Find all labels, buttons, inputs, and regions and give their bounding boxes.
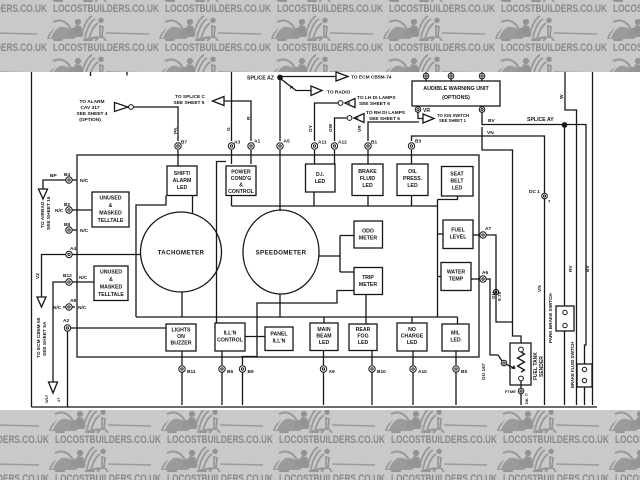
svg-text:CONTROL: CONTROL xyxy=(217,338,243,344)
svg-text:MIL: MIL xyxy=(451,331,461,337)
wire tachometer to bus bottom xyxy=(181,292,183,317)
svg-text:F: F xyxy=(348,101,351,106)
wire B4 to airbag arrow xyxy=(43,180,66,189)
wire trip meter down to rear fog led xyxy=(365,295,367,325)
svg-text:LED: LED xyxy=(450,338,461,344)
svg-text:(OPTION): (OPTION) xyxy=(79,117,101,123)
pin circle audible bottom left xyxy=(417,105,419,107)
svg-text:G: G xyxy=(226,127,232,131)
wire B10 down xyxy=(371,372,373,405)
wire rear fog led to B10 xyxy=(371,351,373,366)
panel illn box xyxy=(265,327,293,351)
wire splice C to node A1 xyxy=(224,101,251,141)
wire stub B8 xyxy=(72,229,77,231)
svg-text:SEE SHEET 6: SEE SHEET 6 xyxy=(359,101,390,107)
resistor fuel sender xyxy=(518,352,525,372)
wire G from sheet edge to node A3 xyxy=(231,72,233,141)
wire audible to ign arrow xyxy=(418,112,423,118)
svg-text:LED: LED xyxy=(362,183,373,189)
svg-text:TO RH DI LAMPS: TO RH DI LAMPS xyxy=(366,110,406,116)
svg-text:B9: B9 xyxy=(248,369,254,375)
svg-text:BP: BP xyxy=(50,173,57,179)
frame bottom border xyxy=(32,406,598,408)
pin circle RH DI lamps xyxy=(347,116,352,121)
dashboard enclosure box xyxy=(77,155,479,357)
svg-text:A4: A4 xyxy=(70,246,76,252)
power cond'g control box xyxy=(226,166,256,196)
svg-text:TO AIRBAG: TO AIRBAG xyxy=(40,201,46,228)
svg-text:GW: GW xyxy=(328,123,334,132)
wire splice AZ to radio arrow xyxy=(281,79,311,91)
svg-text:VN: VN xyxy=(487,130,494,136)
svg-text:COND'G: COND'G xyxy=(231,176,252,182)
wire speedometer to bus bottom xyxy=(279,294,281,317)
oil press led box xyxy=(397,164,428,196)
wire A9 down xyxy=(323,372,325,405)
unused masked telltale box 2 xyxy=(94,266,128,301)
connector A8 xyxy=(66,304,72,310)
svg-text:VR: VR xyxy=(357,125,363,132)
wire sender bottom to connector xyxy=(520,381,522,388)
connector on fuel wire xyxy=(493,289,498,294)
svg-text:FTME: FTME xyxy=(505,389,516,394)
wire node A3 to power box xyxy=(231,150,233,164)
svg-text:A10: A10 xyxy=(418,369,427,375)
sender terminal top xyxy=(519,347,524,352)
pin circle audible top 1 xyxy=(425,72,427,81)
tachometer dial xyxy=(141,212,222,292)
svg-text:OIL: OIL xyxy=(408,169,417,175)
node B7 xyxy=(175,143,181,149)
wire oil press led to bus top xyxy=(411,196,413,207)
svg-text:SPLICE AY: SPLICE AY xyxy=(527,117,554,123)
wire water temp to bus riser xyxy=(438,276,442,278)
connector A10 xyxy=(410,366,416,372)
brake fluid led box xyxy=(352,164,383,196)
svg-text:POWER: POWER xyxy=(231,170,251,176)
svg-text:B7: B7 xyxy=(181,140,187,146)
wire power box left to bus top xyxy=(231,196,233,207)
wire fuel level to bus riser xyxy=(438,233,444,235)
wire shift led to inner bus left riser xyxy=(136,196,166,318)
wiper contact circle xyxy=(501,360,507,366)
svg-text:B4: B4 xyxy=(64,172,70,178)
svg-text:MAIN: MAIN xyxy=(317,327,331,333)
svg-text:LED: LED xyxy=(358,340,369,346)
svg-text:UNUSED: UNUSED xyxy=(100,196,122,202)
svg-text:LED: LED xyxy=(407,340,418,346)
svg-text:TO RADIO: TO RADIO xyxy=(327,90,351,96)
svg-text:SPEEDOMETER: SPEEDOMETER xyxy=(256,250,307,257)
svg-text:SEE SHEET 16: SEE SHEET 16 xyxy=(46,196,52,230)
svg-text:17: 17 xyxy=(56,397,61,402)
node A11 xyxy=(311,143,317,149)
wire VN from node B3 to DC1 xyxy=(412,136,545,193)
svg-text:PK: PK xyxy=(173,127,179,134)
svg-text:&: & xyxy=(239,183,243,189)
unused masked telltale box 1 xyxy=(92,192,129,227)
svg-text:FOG: FOG xyxy=(357,334,368,340)
svg-text:TO SPLICE C: TO SPLICE C xyxy=(175,94,206,100)
connector B10 xyxy=(369,366,375,372)
shift/alarm led box xyxy=(167,166,197,196)
wire A6 to fuel sender wiper xyxy=(486,279,502,361)
svg-text:LEVEL: LEVEL xyxy=(450,235,468,241)
bus bottom rail H2 xyxy=(136,316,458,318)
svg-text:LED: LED xyxy=(315,179,326,185)
svg-text:R: R xyxy=(246,116,252,120)
svg-text:ODO: ODO xyxy=(362,229,374,235)
svg-text:AUDIBLE WARNING UNIT: AUDIBLE WARNING UNIT xyxy=(423,86,489,92)
wiper arrow xyxy=(507,365,516,369)
svg-text:SEAT: SEAT xyxy=(450,172,464,178)
svg-text:LED: LED xyxy=(407,183,418,189)
wire audible feed down to fuel gauge junction xyxy=(482,127,513,322)
fuel tank sender box xyxy=(510,343,531,385)
wire illn control to panel illn xyxy=(245,336,265,338)
svg-text:SENDER: SENDER xyxy=(539,356,545,377)
connector B4 xyxy=(66,177,72,183)
connector A4 xyxy=(66,251,72,257)
connector B2 xyxy=(66,207,72,213)
wire B5 down xyxy=(455,372,457,405)
svg-text:TO LH DI LAMPS: TO LH DI LAMPS xyxy=(357,95,396,101)
rear fog led box xyxy=(349,324,377,351)
brake fluid contact bottom xyxy=(582,378,586,382)
wire A2 to lights on buzzer xyxy=(71,327,166,329)
connector below sender xyxy=(518,388,524,394)
wire no charge led to A10 xyxy=(412,351,414,365)
audible warning unit U1 xyxy=(412,81,500,106)
arrow to LH DI lamps xyxy=(345,99,355,108)
svg-text:SEE SHEET 1: SEE SHEET 1 xyxy=(439,118,467,123)
watermark band top xyxy=(0,0,640,72)
svg-text:NO: NO xyxy=(408,327,416,333)
svg-text:A9: A9 xyxy=(329,369,335,375)
svg-text:REAR: REAR xyxy=(356,327,371,333)
svg-text:TO ALARM: TO ALARM xyxy=(79,99,104,105)
arrow to RH DI lamps xyxy=(354,114,364,123)
splice AZ dot xyxy=(278,75,282,79)
wire park brake down xyxy=(564,331,566,405)
wire RH DI to node A12 xyxy=(335,118,348,141)
wire lights on buzzer to B11 xyxy=(181,351,183,365)
wire B2 to telltale 1 xyxy=(72,209,92,211)
svg-text:BELT: BELT xyxy=(450,179,464,185)
speedometer dial xyxy=(243,210,319,294)
wire B11 down xyxy=(181,372,183,405)
wire illn control to B6 xyxy=(221,351,223,365)
svg-text:CHARGE: CHARGE xyxy=(401,334,424,340)
wire node B1 to brake fluid led xyxy=(367,150,369,164)
svg-text:B1: B1 xyxy=(371,140,377,146)
wire B12 left down xyxy=(53,282,66,382)
svg-text:B2: B2 xyxy=(64,202,70,208)
wire B6 down xyxy=(221,372,223,405)
svg-text:B8: B8 xyxy=(64,222,70,228)
lights on buzzer box xyxy=(166,324,196,351)
svg-text:ON: ON xyxy=(177,334,185,340)
park brake contact bottom xyxy=(563,323,567,327)
wire main beam led to bus bottom xyxy=(323,317,325,323)
svg-text:V2: V2 xyxy=(35,273,41,279)
svg-text:BRAKE: BRAKE xyxy=(358,169,377,175)
pin circle LH DI lamps xyxy=(338,101,343,106)
svg-text:SEE SHEET 6: SEE SHEET 6 xyxy=(369,116,400,122)
connector A2 xyxy=(64,325,70,331)
svg-text:LED: LED xyxy=(177,185,188,191)
svg-text:METER: METER xyxy=(359,282,377,288)
wire no charge led to bus bottom xyxy=(411,317,413,323)
connector B5 xyxy=(453,366,459,372)
svg-text:SEE SHEET 5: SEE SHEET 5 xyxy=(174,100,205,106)
wire fuel junction to sender xyxy=(513,322,522,343)
wire speedometer to odo/trip bracket xyxy=(319,236,354,273)
odo meter box xyxy=(354,221,383,248)
frame left border xyxy=(31,72,33,407)
arrow to splice C xyxy=(213,97,225,106)
wire B12 to telltale 2 xyxy=(72,281,94,283)
brake fluid switch box xyxy=(577,364,592,387)
brake fluid contact top xyxy=(582,367,586,371)
node A3 xyxy=(228,143,234,149)
svg-text:TELLTALE: TELLTALE xyxy=(98,292,124,298)
connector A7 xyxy=(473,234,480,236)
svg-text:METER: METER xyxy=(359,236,377,242)
svg-text:D.I.: D.I. xyxy=(316,172,325,178)
wire splice AZ to ECM arrow xyxy=(282,76,336,78)
svg-text:B10: B10 xyxy=(377,369,386,375)
wire node A5 to speedometer xyxy=(279,150,281,211)
svg-text:VN: VN xyxy=(537,285,543,292)
wire A7 to fuel junction xyxy=(486,235,512,322)
wire splice AZ to node A5 xyxy=(279,80,281,142)
tick mark top edge 1 xyxy=(90,72,92,76)
node A12 xyxy=(331,143,337,149)
svg-text:LED: LED xyxy=(319,340,330,346)
svg-text:BEAM: BEAM xyxy=(316,334,331,340)
svg-text:A12: A12 xyxy=(338,140,347,146)
arrow to radio xyxy=(311,86,322,96)
watermark band bottom xyxy=(0,410,640,480)
arrow to alarm xyxy=(115,103,129,112)
svg-text:&: & xyxy=(109,277,113,283)
wire node B1 up to ign switch arrow xyxy=(368,122,419,141)
svg-text:N/C: N/C xyxy=(55,208,64,214)
wire node A11 to DI led xyxy=(314,150,316,164)
wire main beam led to A9 xyxy=(323,351,325,366)
connector A9 xyxy=(320,366,326,372)
wire B9 down xyxy=(242,372,244,405)
splice AY dot xyxy=(562,123,566,127)
wire node A1 to power box xyxy=(250,150,252,164)
svg-text:A3: A3 xyxy=(234,140,240,146)
svg-text:DC 1: DC 1 xyxy=(529,189,540,195)
connector A6 xyxy=(471,278,480,280)
wire W from top edge xyxy=(565,72,577,405)
svg-text:C: C xyxy=(525,392,528,397)
svg-text:LED: LED xyxy=(452,186,463,192)
wire A4 to tachometer xyxy=(72,254,141,256)
svg-text:CONTROL: CONTROL xyxy=(228,189,254,195)
svg-text:TELLTALE: TELLTALE xyxy=(98,218,124,224)
trip meter box xyxy=(354,268,383,295)
wire brake fluid led to bus top xyxy=(367,196,369,207)
svg-text:ILL'N: ILL'N xyxy=(224,331,237,337)
seat belt led box xyxy=(442,167,474,197)
no charge led box xyxy=(397,323,427,351)
svg-text:FUEL: FUEL xyxy=(451,228,465,234)
wire mil led to B5 xyxy=(455,351,457,365)
illn control box xyxy=(215,323,245,351)
svg-text:ALARM: ALARM xyxy=(173,178,192,184)
svg-text:TO ECM CB5M-74: TO ECM CB5M-74 xyxy=(351,75,392,81)
svg-text:GY: GY xyxy=(308,124,314,132)
svg-text:LIGHTS: LIGHTS xyxy=(171,328,191,334)
svg-text:WATER: WATER xyxy=(447,270,466,276)
svg-text:N/C: N/C xyxy=(80,178,89,184)
svg-text:PRESS.: PRESS. xyxy=(403,176,423,182)
svg-text:ILL'N: ILL'N xyxy=(273,339,286,345)
connector B12 xyxy=(66,279,72,285)
svg-text:MASKED: MASKED xyxy=(99,211,122,217)
svg-text:TRIP: TRIP xyxy=(362,275,374,281)
svg-text:SHIFT/: SHIFT/ xyxy=(174,171,191,177)
svg-text:GU 167: GU 167 xyxy=(481,363,487,380)
svg-text:N/C: N/C xyxy=(78,305,87,311)
svg-text:W17: W17 xyxy=(44,394,49,403)
sender terminal bottom xyxy=(519,376,524,381)
node A1 xyxy=(248,143,254,149)
park brake contact top xyxy=(563,310,567,314)
connector B9 xyxy=(239,366,245,372)
mil led box xyxy=(442,324,469,351)
svg-text:N/C: N/C xyxy=(80,228,89,234)
svg-text:N/C: N/C xyxy=(53,305,62,311)
arrow to ECM CB5M-74 xyxy=(336,72,348,81)
tick mark top edge 2 xyxy=(126,72,128,76)
bus top rail xyxy=(232,205,438,207)
wire trip meter side to B9 riser xyxy=(243,291,355,366)
svg-text:CAV 317: CAV 317 xyxy=(80,105,99,111)
wire RV from top edge down xyxy=(592,72,594,405)
pin circle audible bottom right xyxy=(481,105,483,107)
arrow to airbag xyxy=(39,189,48,199)
arrow B12 bottom xyxy=(49,382,58,393)
svg-text:N/C: N/C xyxy=(79,275,88,281)
svg-text:BUZZER: BUZZER xyxy=(170,341,191,347)
wire stub B4 right xyxy=(72,179,77,181)
wire A2 down to frame xyxy=(67,331,69,407)
connector B8 xyxy=(66,227,72,233)
wire power box to illn control xyxy=(217,162,227,324)
svg-text:A7: A7 xyxy=(485,226,491,232)
wire splice AY right and down to brake fluid switch xyxy=(566,125,586,365)
svg-text:&: & xyxy=(109,203,113,209)
pin circle alarm xyxy=(129,105,134,110)
svg-text:TEMP: TEMP xyxy=(449,277,464,283)
svg-text:SEE SHEET 4: SEE SHEET 4 xyxy=(77,111,108,117)
fuel level box xyxy=(443,220,473,249)
bus right riser xyxy=(437,200,439,318)
wire LH DI to node A11 xyxy=(315,103,339,141)
svg-text:B3: B3 xyxy=(415,139,421,145)
water temp box xyxy=(441,263,471,291)
svg-text:A6: A6 xyxy=(482,270,488,276)
svg-text:A11: A11 xyxy=(318,140,327,146)
svg-text:A2: A2 xyxy=(63,318,69,324)
wire mil led to bus bottom xyxy=(457,317,459,324)
wire node B7 to shift led xyxy=(177,150,179,166)
svg-text:TO ECM CB5M-55: TO ECM CB5M-55 xyxy=(36,317,42,358)
svg-text:GU: GU xyxy=(491,291,497,299)
svg-text:SPLICE AZ: SPLICE AZ xyxy=(247,76,275,82)
svg-text:TACHOMETER: TACHOMETER xyxy=(158,250,205,257)
svg-text:A5: A5 xyxy=(284,139,290,145)
svg-text:(OPTIONS): (OPTIONS) xyxy=(442,95,470,101)
svg-text:VR: VR xyxy=(423,108,430,114)
svg-text:FLUID: FLUID xyxy=(360,176,376,182)
svg-text:UNUSED: UNUSED xyxy=(100,270,122,276)
pin circle audible top 2 xyxy=(450,72,452,81)
svg-text:B12: B12 xyxy=(63,273,72,279)
svg-text:MASKED: MASKED xyxy=(100,285,123,291)
wire stubs A8 xyxy=(63,306,75,308)
wire node B3 to oil press led xyxy=(411,150,413,164)
svg-text:W: W xyxy=(559,94,565,99)
pin circle audible top 3 xyxy=(481,72,483,81)
wire node A12 to DI led xyxy=(334,150,336,164)
connector B11 xyxy=(179,366,185,372)
svg-text:0.75: 0.75 xyxy=(497,291,503,301)
svg-text:PANEL: PANEL xyxy=(270,332,288,338)
node B3 xyxy=(408,143,414,149)
wire seat belt led jog to bus right riser xyxy=(438,196,458,200)
svg-text:BV: BV xyxy=(585,265,591,272)
wire DI led to bus top xyxy=(313,192,315,206)
svg-text:E: E xyxy=(356,116,359,121)
wire brake fluid switch down xyxy=(584,387,586,405)
main beam led box xyxy=(310,323,338,351)
connector DC1 xyxy=(542,193,548,199)
node A5 xyxy=(277,143,283,149)
svg-text:BV: BV xyxy=(488,118,495,124)
connector B6 xyxy=(219,366,225,372)
svg-text:RV: RV xyxy=(568,265,574,272)
svg-text:B5: B5 xyxy=(461,369,467,375)
node B1 xyxy=(365,143,371,149)
park brake switch box xyxy=(556,306,574,331)
svg-text:A1: A1 xyxy=(254,139,260,145)
svg-text:BRAKE FLUID SWITCH: BRAKE FLUID SWITCH xyxy=(570,342,575,388)
wire alarm to node B7 xyxy=(134,107,179,141)
svg-text:A8: A8 xyxy=(70,298,76,304)
svg-text:PARK BRAKE SWITCH: PARK BRAKE SWITCH xyxy=(548,293,553,343)
wire splice AY down to park brake switch xyxy=(564,127,566,306)
wire shift led to tachometer xyxy=(192,196,194,215)
wire sender connector down xyxy=(520,394,522,405)
arrow to ign switch xyxy=(423,114,434,123)
svg-text:SEE SHEET 5A: SEE SHEET 5A xyxy=(42,321,48,356)
wire DC1 down VN xyxy=(544,199,546,405)
DI led box xyxy=(306,164,336,192)
wire BV audible to splice AY xyxy=(482,112,562,124)
wire A10 down xyxy=(412,372,414,405)
svg-text:DK: DK xyxy=(524,398,529,404)
arrow to ECM sheet 5A xyxy=(37,297,46,307)
svg-text:B11: B11 xyxy=(187,369,196,375)
wire A4 to ECM arrow xyxy=(42,255,66,298)
